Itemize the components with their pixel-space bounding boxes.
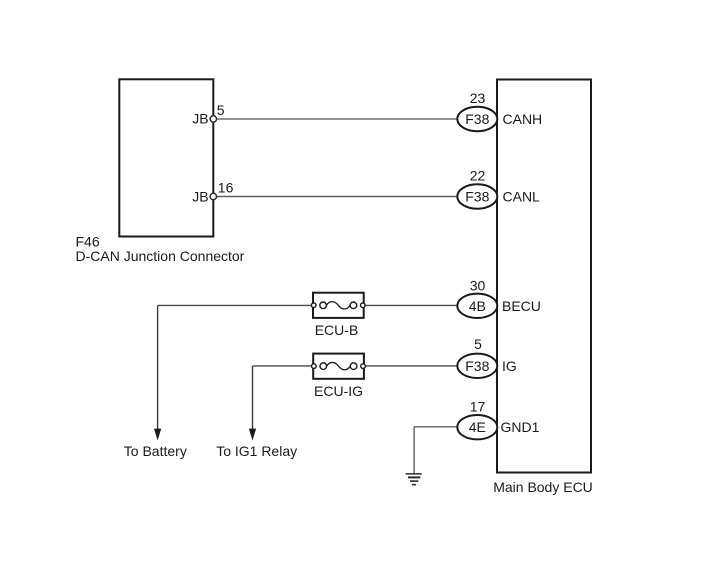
arrowhead to battery xyxy=(154,429,161,441)
terminal oval 4B pin 30 (BECU) xyxy=(457,294,497,318)
svg-text:ECU-IG: ECU-IG xyxy=(314,383,363,399)
wire BECU horizontal right of fuse xyxy=(364,304,458,306)
svg-text:23: 23 xyxy=(470,90,486,106)
svg-text:F46: F46 xyxy=(76,233,100,249)
svg-text:JB: JB xyxy=(192,189,208,205)
svg-text:17: 17 xyxy=(470,398,486,414)
svg-text:22: 22 xyxy=(470,167,486,183)
terminal oval F38 pin 22 (CANL) xyxy=(457,184,497,208)
svg-text:4E: 4E xyxy=(469,419,486,435)
Main Body ECU box xyxy=(497,80,591,473)
svg-text:D-CAN Junction Connector: D-CAN Junction Connector xyxy=(76,248,245,264)
svg-text:IG: IG xyxy=(502,358,517,374)
fuse ECU-B xyxy=(311,293,365,318)
svg-text:F38: F38 xyxy=(465,189,489,205)
terminal oval 4E pin 17 (GND1) xyxy=(457,415,497,439)
wire IG horizontal right of fuse xyxy=(364,365,458,367)
wire to battery vertical xyxy=(157,305,159,429)
terminal oval F38 pin 5 (IG) xyxy=(457,354,497,378)
svg-text:F38: F38 xyxy=(465,358,489,374)
wire BECU horizontal left of fuse xyxy=(158,304,313,306)
svg-text:To IG1 Relay: To IG1 Relay xyxy=(216,443,297,459)
svg-text:ECU-B: ECU-B xyxy=(315,322,359,338)
wire GND1 horizontal xyxy=(414,426,458,428)
fuse ECU-IG xyxy=(312,354,366,379)
pin JB 16 circle xyxy=(210,193,216,199)
svg-text:GND1: GND1 xyxy=(501,419,540,435)
ground symbol xyxy=(406,474,422,485)
junction connector F46 box xyxy=(119,79,213,236)
svg-text:4B: 4B xyxy=(469,298,486,314)
wire IG horizontal left of fuse xyxy=(253,365,314,367)
svg-text:CANL: CANL xyxy=(503,189,541,205)
svg-text:BECU: BECU xyxy=(502,298,541,314)
svg-text:JB: JB xyxy=(192,110,208,126)
svg-text:CANH: CANH xyxy=(503,111,543,127)
pin JB 5 circle xyxy=(210,116,216,122)
wire CANL xyxy=(217,196,458,198)
wire to IG1 relay vertical xyxy=(252,366,254,430)
wire CANH xyxy=(217,118,458,120)
svg-text:16: 16 xyxy=(218,179,234,195)
svg-text:5: 5 xyxy=(474,336,482,352)
terminal oval F38 pin 23 (CANH) xyxy=(457,107,497,131)
svg-text:To Battery: To Battery xyxy=(124,443,187,459)
svg-text:30: 30 xyxy=(470,278,486,294)
svg-text:Main Body ECU: Main Body ECU xyxy=(493,479,593,495)
svg-text:5: 5 xyxy=(217,102,225,118)
arrowhead to IG1 relay xyxy=(249,429,256,441)
svg-text:F38: F38 xyxy=(465,111,489,127)
wire GND1 vertical xyxy=(413,427,415,474)
